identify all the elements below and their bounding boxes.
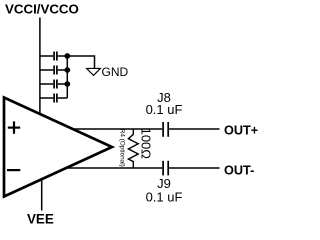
pin label + (non-inverting input): [8, 121, 20, 133]
junction dot 3: [64, 81, 70, 87]
wire VEE stub: [41, 179, 43, 211]
ground label GND: [102, 65, 129, 79]
pin label - (inverting input): [7, 169, 20, 171]
capacitor J9: [163, 161, 168, 176]
svg-text:OUT+: OUT+: [224, 124, 258, 138]
net label OUT-: [224, 164, 254, 178]
wire bypass stub 4: [40, 97, 67, 99]
wire OUT- line right: [169, 167, 219, 169]
value label R4 (Optional): [119, 129, 126, 167]
wire bypass stub 2: [40, 69, 67, 71]
svg-text:0.1 uF: 0.1 uF: [146, 102, 183, 117]
wire OUT+ line left: [73, 128, 163, 130]
bypass capacitor 4: [54, 94, 57, 103]
op-amp U1: [4, 98, 112, 197]
svg-text:GND: GND: [102, 65, 129, 79]
wire ground bus: [66, 56, 68, 98]
svg-text:R4 (Optional): R4 (Optional): [119, 129, 126, 167]
svg-text:100Ω: 100Ω: [139, 128, 154, 160]
reference label J9: [157, 176, 171, 191]
wire bypass stub 1: [40, 55, 67, 57]
bypass capacitor 3: [54, 80, 57, 89]
value label 100 ohm: [139, 128, 154, 160]
svg-text:0.1 uF: 0.1 uF: [146, 190, 183, 205]
wire bypass stub 3: [40, 83, 67, 85]
capacitor J8: [163, 122, 168, 137]
svg-text:VCCI/VCCO: VCCI/VCCO: [5, 2, 79, 17]
wire OUT- line left: [66, 167, 162, 169]
svg-text:OUT-: OUT-: [224, 164, 254, 178]
reference label J8: [157, 90, 171, 105]
ground: [87, 68, 101, 75]
resistor R4: [128, 129, 138, 168]
junction dot 2: [64, 67, 70, 73]
svg-text:VEE: VEE: [27, 212, 54, 227]
value label 0.1 uF (J8): [146, 102, 183, 117]
wire OUT+ line right: [169, 128, 219, 130]
net label VEE: [27, 212, 54, 227]
bypass capacitor 2: [54, 66, 57, 75]
net label OUT+: [224, 124, 258, 138]
wire VCCI/VCCO rail: [39, 18, 41, 115]
value label 0.1 uF (J9): [146, 190, 183, 205]
bypass capacitor 1: [54, 52, 57, 61]
junction dot 1: [64, 53, 70, 59]
net label VCCI/VCCO: [5, 2, 79, 17]
wire to ground symbol: [67, 56, 94, 68]
